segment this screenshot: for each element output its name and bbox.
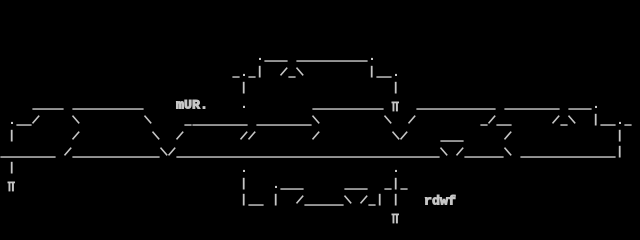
- dashed marker col1 rows10-11: [11, 162, 13, 174]
- notch cols55-57 row9: [441, 148, 448, 156]
- marker dot col30 row6: [243, 106, 245, 108]
- bottom pulse low line row12: [304, 204, 343, 205]
- low stub col46 row12: [368, 204, 375, 205]
- baseline row9 seg4: [464, 156, 503, 157]
- signal mUR high segment row6 mid: [312, 108, 383, 109]
- row7 left dashed start and rise: [11, 122, 13, 124]
- bottom pulse dashed col34: [275, 186, 277, 188]
- signal mUR high segment row6 left: [32, 108, 63, 109]
- baseline row9 seg5: [520, 156, 615, 157]
- fork backslash col63 row9: [505, 148, 512, 156]
- svg-text:rdwf: rdwf: [424, 195, 456, 210]
- top pulse glitch notch /_\ row4: [281, 68, 288, 76]
- marker pi col49 row6: [392, 102, 400, 112]
- baseline row9 seg2: [72, 156, 159, 157]
- top pulse high line row3: [259, 58, 261, 60]
- baseline row9 left: [0, 156, 55, 157]
- rising edge cols21-23: [177, 132, 184, 140]
- dashed marker col49 rows11-13: [395, 178, 397, 190]
- top pulse falling step col46-49: [371, 66, 373, 78]
- bump /_\ cols69-71 row7: [553, 116, 560, 124]
- double slash rising cols30-31 row8: [241, 132, 248, 140]
- row7 segment col60 and rise col61: [480, 124, 487, 125]
- vertical col77 row9: [619, 146, 621, 158]
- row11 stubs cols48,50: [384, 188, 391, 189]
- crossover chevron col9: [73, 116, 80, 124]
- V bottom cols20-21 row9: [161, 148, 168, 156]
- row8 verticals: [11, 130, 13, 142]
- top pulse rising step: dashed riser col30: [232, 76, 239, 77]
- slash col37 row12: [297, 196, 304, 204]
- slash col45 row12: [361, 196, 368, 204]
- rising slash col8 row9: [65, 148, 72, 156]
- bump bar cols55-57 row8: [440, 140, 463, 141]
- bottom pulse low line left row12: [248, 204, 263, 205]
- falling edge cols18-20: [145, 116, 152, 124]
- bottom pulse high line rows11: [280, 188, 303, 189]
- marker dots row10: [243, 170, 245, 172]
- vertical col47 row12: [379, 194, 381, 206]
- svg-text:mUR.: mUR.: [176, 99, 208, 114]
- bottom pulse left riser col30: [243, 178, 245, 190]
- backslash col43 row12: [345, 196, 352, 204]
- baseline row9 seg3 (long): [176, 156, 439, 157]
- row7 mid line: [192, 124, 247, 125]
- signal mUR high segment row6 right: [416, 108, 495, 109]
- bottom pulse high line right row11: [344, 188, 367, 189]
- fork col63 row8: [505, 132, 512, 140]
- row7 right dashed end: [595, 114, 597, 126]
- V dip cols48-51: [385, 116, 392, 124]
- crossover chevron col39: [313, 116, 320, 124]
